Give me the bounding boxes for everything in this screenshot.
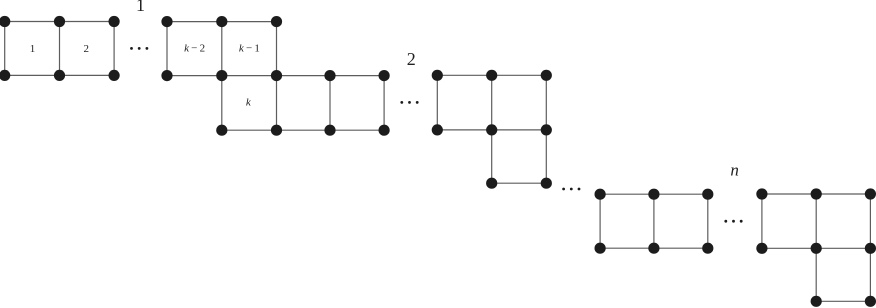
- svg-text:k − 1: k − 1: [239, 43, 260, 55]
- node Lnb top vertex 2: [811, 188, 822, 199]
- ladder 1 : right part (squares k-2, k-1) with hanging square k and ladder 2 start: [161, 16, 389, 136]
- node L1b/L2 middle vertex 3: [271, 70, 282, 81]
- node L2b top vertex 3: [541, 70, 552, 81]
- node L2b middle vertex 1: [432, 124, 443, 135]
- ladder 2 : right part with hanging square: [432, 70, 552, 189]
- node L1b/L2 middle vertex 4: [324, 70, 335, 81]
- svg-text:n: n: [730, 161, 739, 180]
- node L1b top vertex 3: [271, 16, 282, 27]
- node Lnb middle vertex 1: [756, 243, 767, 254]
- node L2b top vertex 2: [486, 70, 497, 81]
- node L2b middle vertex 3: [541, 124, 552, 135]
- wire Ln bottom edge: [600, 247, 708, 249]
- wire L1 left edge: [4, 22, 6, 76]
- wire Lnb right edge: [869, 194, 871, 301]
- wire L2b left edge: [436, 75, 438, 130]
- node Lnb bottom vertex 1: [811, 296, 822, 307]
- node Lnb bottom vertex 2: [865, 296, 876, 307]
- wire L2b top edge: [437, 74, 546, 76]
- wire Lnb left edge: [761, 194, 763, 248]
- node L1 bottom vertex 3: [109, 70, 120, 81]
- node Ln top vertex 2: [648, 189, 659, 200]
- node L2 bottom vertex 4: [379, 125, 390, 136]
- node L1b top vertex 1: [161, 16, 172, 27]
- ladder n : right part with hanging square: [756, 188, 876, 307]
- wire L2 right edge: [383, 76, 385, 131]
- wire L2b hang bottom edge: [492, 182, 547, 184]
- wire square k left edge: [221, 22, 223, 131]
- node L2b bottom vertex 2: [541, 178, 552, 189]
- wire Lnb top edge: [762, 193, 871, 195]
- wire Lnb middle edge: [762, 247, 871, 249]
- wire Lnb hang bottom edge: [816, 300, 870, 302]
- node L1b/L2 middle vertex 1: [161, 70, 172, 81]
- wire L1b top edge: [167, 21, 277, 23]
- wire L1b left edge: [166, 22, 168, 76]
- wire L1 top edge: [5, 21, 114, 23]
- node L1 top vertex 1: [0, 16, 10, 27]
- wire Ln top edge: [600, 193, 708, 195]
- wire Ln right edge: [707, 194, 709, 248]
- node L2b middle vertex 2: [486, 124, 497, 135]
- node Ln bottom vertex 3: [702, 243, 713, 254]
- node L1 top vertex 2: [54, 16, 65, 27]
- wire L1 right edge: [113, 22, 115, 76]
- wire L1b/L2 middle edge: [167, 75, 384, 77]
- node L1 bottom vertex 1: [0, 70, 10, 81]
- node ladders 3..n-1 continuation dots (ellipsis): [562, 188, 580, 191]
- svg-text:k: k: [246, 97, 252, 109]
- wire L1 bottom edge: [5, 74, 114, 76]
- node ladder n continuation dots (ellipsis): [724, 220, 742, 223]
- node Ln top vertex 1: [595, 189, 606, 200]
- svg-text:2: 2: [84, 43, 90, 55]
- wire Ln left edge: [599, 194, 601, 248]
- node Ln top vertex 3: [702, 189, 713, 200]
- node L2 bottom vertex 1: [216, 125, 227, 136]
- wire L2b right edge: [545, 75, 547, 183]
- node L1b top vertex 2: [216, 16, 227, 27]
- svg-text:1: 1: [136, 0, 145, 15]
- node L1b/L2 middle vertex 2: [216, 70, 227, 81]
- node ladder 1 continuation dots (ellipsis): [130, 47, 148, 50]
- ladder n : left part: [595, 189, 714, 254]
- svg-text:1: 1: [30, 43, 36, 55]
- ladder 1 : left part (squares 1 and 2): [0, 16, 120, 81]
- wire Lnb mid edge: [815, 194, 817, 301]
- wire L2b middle edge: [437, 129, 546, 131]
- node Lnb top vertex 1: [756, 188, 767, 199]
- wire L2 mid edge: [329, 76, 331, 131]
- node Ln bottom vertex 1: [595, 243, 606, 254]
- wire square k right edge: [276, 22, 278, 131]
- node Lnb top vertex 3: [865, 188, 876, 199]
- svg-text:k − 2: k − 2: [184, 43, 205, 55]
- node L2b bottom vertex 1: [486, 178, 497, 189]
- node ladder 2 continuation dots (ellipsis): [400, 101, 418, 104]
- node L2b top vertex 1: [432, 70, 443, 81]
- wire L2b mid edge: [491, 75, 493, 183]
- node L2 bottom vertex 3: [324, 125, 335, 136]
- node Lnb middle vertex 3: [865, 243, 876, 254]
- wire L2 bottom edge: [222, 129, 384, 131]
- node L1 bottom vertex 2: [54, 70, 65, 81]
- node L1b/L2 middle vertex 5: [379, 70, 390, 81]
- wire Ln mid edge: [653, 194, 655, 248]
- node Ln bottom vertex 2: [648, 243, 659, 254]
- node L1 top vertex 3: [109, 16, 120, 27]
- node Lnb middle vertex 2: [811, 243, 822, 254]
- node L2 bottom vertex 2: [271, 125, 282, 136]
- svg-text:2: 2: [407, 49, 416, 69]
- wire L1 mid edge: [59, 22, 61, 76]
